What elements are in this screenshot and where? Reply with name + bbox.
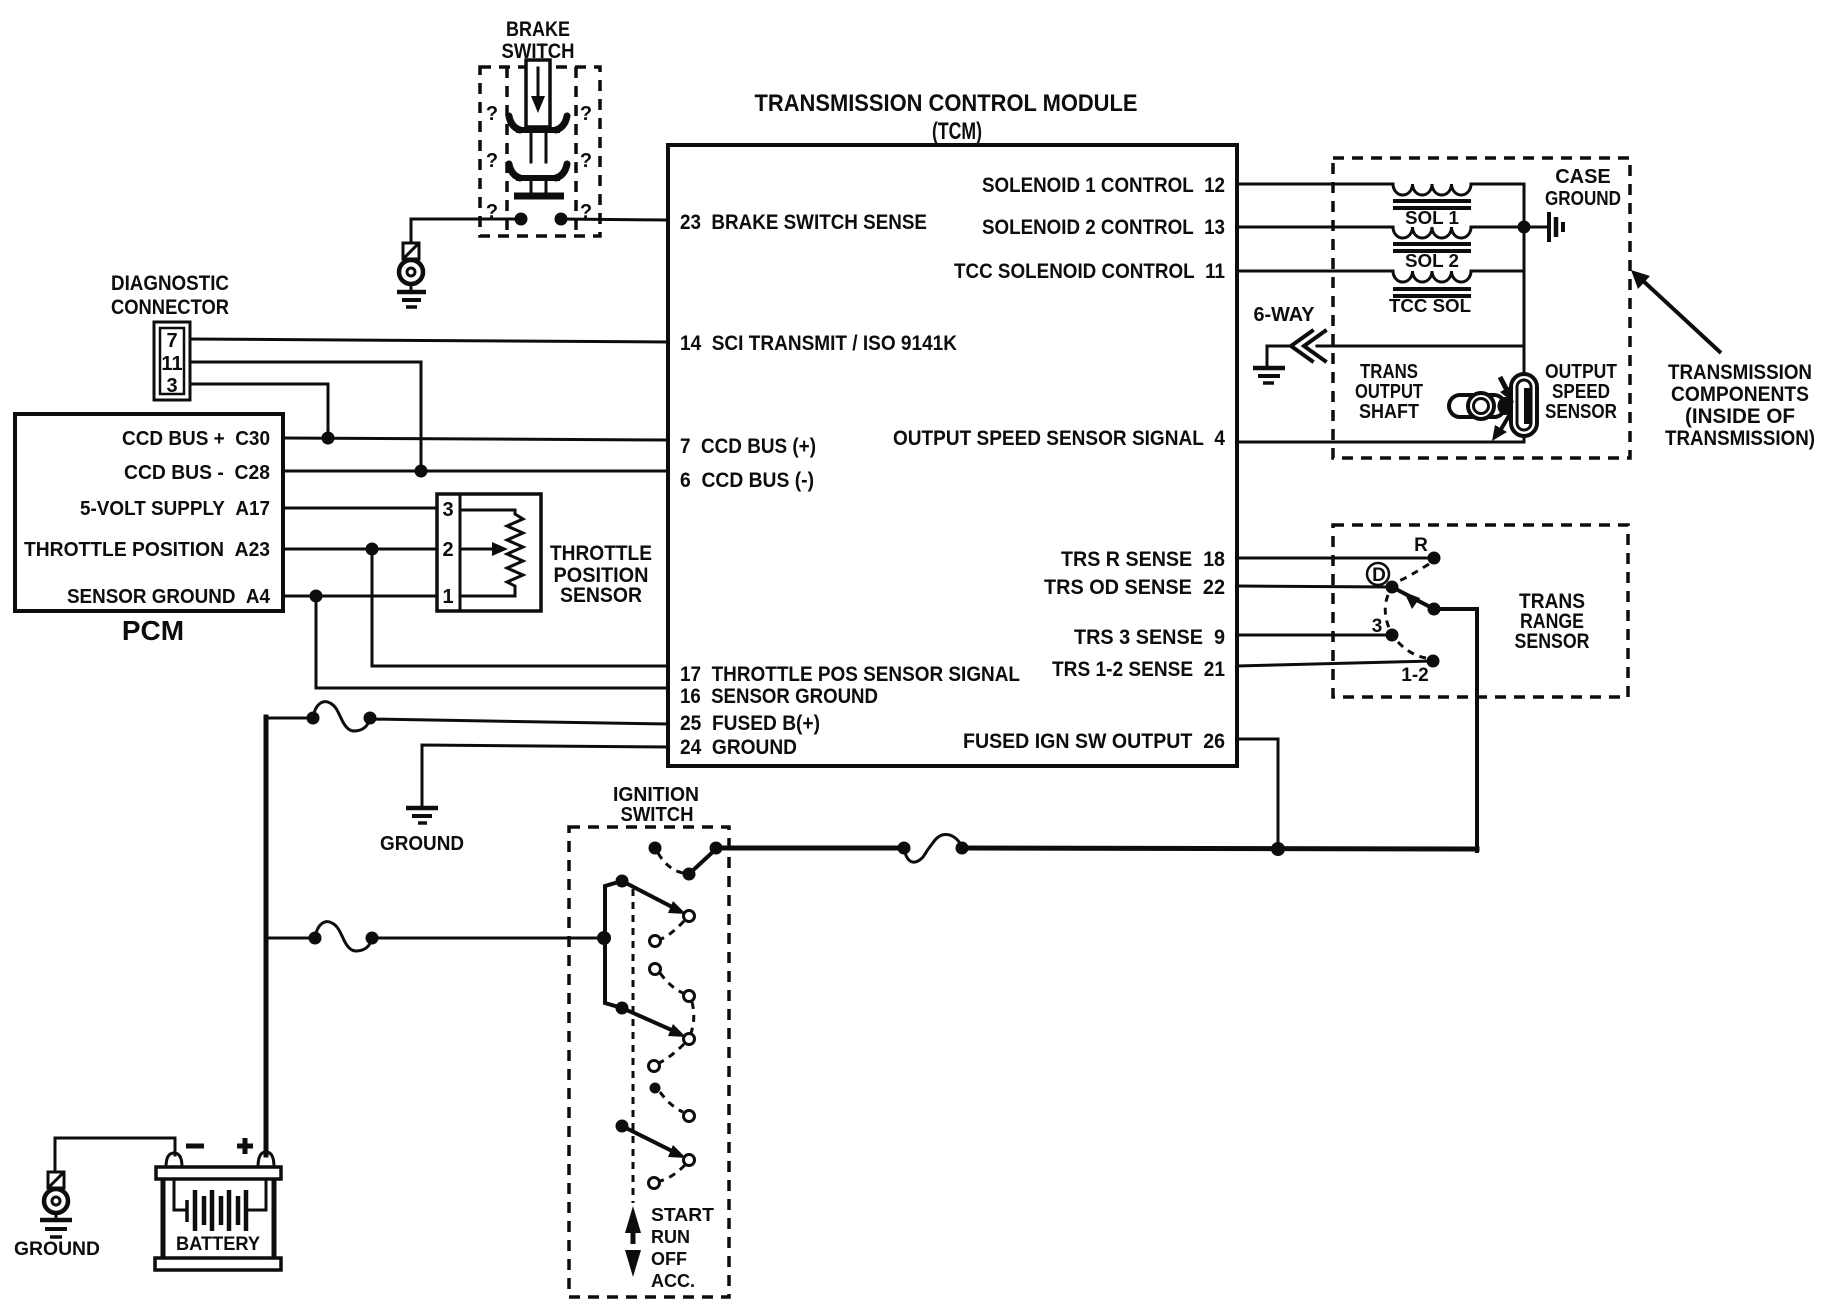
- solenoid SOL 1: [1393, 184, 1471, 228]
- svg-text:SENSOR: SENSOR: [1545, 401, 1617, 423]
- wire TCM pin 9 to TRS 3 contact: [1237, 634, 1392, 637]
- trans output shaft symbol: [1355, 361, 1513, 423]
- battery internal plates: [174, 1180, 187, 1210]
- svg-text:11: 11: [161, 353, 182, 375]
- svg-text:TCC SOLENOID CONTROL 11: TCC SOLENOID CONTROL 11: [954, 260, 1225, 283]
- node A23 junction: [366, 543, 379, 556]
- trans range sensor S2 dashed enclosure: [1333, 525, 1628, 697]
- wire riser to fuse F1: [266, 717, 313, 720]
- svg-text:16 SENSOR GROUND: 16 SENSOR GROUND: [680, 685, 878, 708]
- svg-text:SOLENOID 1 CONTROL 12: SOLENOID 1 CONTROL 12: [982, 174, 1225, 197]
- brake switch contact 2: [509, 164, 520, 178]
- wire diag pin3 to CCD bus +: [190, 384, 328, 438]
- ignition switch feed bar: [605, 881, 622, 1008]
- svg-text:CONNECTOR: CONNECTOR: [111, 296, 229, 319]
- ground G3 (TCM ground): [380, 808, 464, 855]
- svg-text:SWITCH: SWITCH: [621, 804, 694, 826]
- wire PCM A23 to TPS pin 2: [283, 548, 458, 551]
- svg-text:(TCM): (TCM): [932, 118, 982, 145]
- wire ignition switch to TRS feed (fused ign sw output run): [716, 846, 904, 851]
- solenoid SOL 2: [1393, 227, 1471, 271]
- svg-text:CCD BUS + C30: CCD BUS + C30: [122, 428, 270, 450]
- ignition switch stationary contacts: [684, 911, 695, 922]
- TRS dashed detent arcs: [1399, 564, 1429, 581]
- svg-text:17 THROTTLE POS SENSOR SIGNAL: 17 THROTTLE POS SENSOR SIGNAL: [680, 663, 1020, 686]
- brake switch dashed housing: [480, 67, 600, 236]
- fuse F1 (TCM B+ fuse): [307, 702, 377, 731]
- node 3 contact: [1386, 629, 1399, 642]
- ignition switch wiper arm 2: [622, 1008, 676, 1032]
- svg-text:START: START: [651, 1205, 714, 1225]
- svg-text:6-WAY: 6-WAY: [1254, 304, 1316, 326]
- wire PCM A4 to TPS pin 1: [283, 595, 458, 598]
- wire solenoid return bus: [1523, 227, 1526, 377]
- brake switch plunger: [526, 60, 550, 127]
- brake switch contact 1: [509, 116, 520, 130]
- svg-text:6 CCD BUS (-): 6 CCD BUS (-): [680, 469, 814, 492]
- svg-text:TRS OD SENSE 22: TRS OD SENSE 22: [1044, 576, 1225, 599]
- svg-text:THROTTLE POSITION A23: THROTTLE POSITION A23: [24, 539, 270, 561]
- output speed sensor B1: [1492, 361, 1617, 441]
- svg-text:3: 3: [166, 375, 177, 397]
- TCM U1 (Transmission Control Module): [668, 90, 1237, 766]
- svg-text:24 GROUND: 24 GROUND: [680, 736, 797, 759]
- ignition switch wiper arm 3: [616, 1120, 629, 1133]
- svg-text:25 FUSED B(+): 25 FUSED B(+): [680, 712, 820, 735]
- transmission components dashed enclosure: [1333, 158, 1630, 458]
- wire TCM pin 13 to SOL2: [1237, 226, 1393, 229]
- svg-text:23 BRAKE SWITCH SENSE: 23 BRAKE SWITCH SENSE: [680, 211, 927, 234]
- fuse F2 (ignition switch fuse): [309, 922, 379, 951]
- svg-text:SENSOR GROUND A4: SENSOR GROUND A4: [67, 586, 271, 608]
- wire brake switch to TCM pin 23: [561, 219, 668, 220]
- trans range sensor contacts and wiper: [1367, 535, 1590, 686]
- TRS wiper arm: [1392, 587, 1434, 609]
- TPS resistor element: [460, 510, 523, 596]
- node ignition feed junction: [1271, 842, 1285, 856]
- fuse F3 (ignition feed fuse): [898, 835, 969, 863]
- battery minus label: [186, 1144, 204, 1149]
- svg-text:TRANSMISSION CONTROL MODULE: TRANSMISSION CONTROL MODULE: [755, 90, 1138, 117]
- wire SOL2 to case ground bus: [1471, 226, 1524, 229]
- wire PCM C30 to TCM pin 7 (CCD bus +): [283, 438, 668, 440]
- wire fuse F1 to TCM pin 25: [370, 719, 668, 724]
- wire PCM A17 to TPS pin 3: [283, 507, 458, 510]
- svg-text:FUSED IGN SW OUTPUT 26: FUSED IGN SW OUTPUT 26: [963, 730, 1225, 753]
- solenoid TCC SOL: [1389, 271, 1471, 316]
- ground G4 (battery bolt ground): [14, 1172, 100, 1260]
- wire riser to fuse F2: [266, 937, 315, 940]
- svg-text:ACC.: ACC.: [651, 1271, 695, 1291]
- wire TCM pin 24 to ground: [422, 745, 668, 806]
- svg-text:3: 3: [1372, 616, 1383, 637]
- svg-text:2: 2: [442, 539, 453, 561]
- wire battery feed riser: [264, 717, 269, 1155]
- svg-text:RUN: RUN: [651, 1227, 690, 1247]
- battery negative terminal: [166, 1153, 182, 1167]
- svg-text:3: 3: [442, 499, 453, 521]
- svg-text:SPEED: SPEED: [1552, 381, 1610, 403]
- diagnostic connector J1: [111, 272, 229, 400]
- svg-text:CASE: CASE: [1555, 166, 1611, 188]
- node CCD- junction: [415, 465, 428, 478]
- svg-text:?: ?: [486, 150, 498, 172]
- node A4 junction: [310, 590, 323, 603]
- svg-text:BATTERY: BATTERY: [176, 1234, 260, 1255]
- case ground symbol: [1524, 166, 1621, 242]
- svg-text:COMPONENTS: COMPONENTS: [1671, 383, 1809, 406]
- brake switch terminals: [515, 213, 528, 226]
- ignition switch S3: [569, 784, 729, 1297]
- svg-text:TRS R SENSE 18: TRS R SENSE 18: [1061, 548, 1225, 571]
- ground G2 (6-way chassis ground): [1253, 368, 1285, 383]
- svg-text:(INSIDE OF: (INSIDE OF: [1685, 405, 1795, 428]
- svg-text:SOLENOID 2 CONTROL 13: SOLENOID 2 CONTROL 13: [982, 216, 1225, 239]
- wire brake switch to ground: [411, 219, 521, 243]
- ground G1 (brake switch bolt ground): [397, 243, 426, 307]
- svg-text:THROTTLE: THROTTLE: [550, 542, 652, 565]
- svg-text:TRANSMISSION): TRANSMISSION): [1665, 427, 1815, 450]
- wire SOL1 to case ground bus: [1471, 184, 1524, 227]
- svg-text:7 CCD BUS (+): 7 CCD BUS (+): [680, 435, 816, 458]
- node CCD+ junction: [322, 432, 335, 445]
- svg-text:TRS 3 SENSE 9: TRS 3 SENSE 9: [1074, 626, 1225, 649]
- TPS wiper arrow: [460, 548, 496, 551]
- wire TCM pin 21 to TRS 1-2 contact: [1237, 661, 1433, 666]
- svg-text:1-2: 1-2: [1401, 665, 1428, 686]
- svg-text:GROUND: GROUND: [380, 833, 464, 855]
- wire diag pin11 to CCD bus -: [190, 362, 421, 471]
- wire TCM pin 18 to TRS R contact: [1237, 557, 1434, 560]
- PCM module: [15, 414, 283, 646]
- ignition switch dashed detent arcs: [661, 921, 684, 939]
- throttle position sensor R1: [437, 494, 652, 611]
- wire TCM pin 4 to speed sensor (output speed sensor signal): [1237, 441, 1524, 444]
- wire PCM C28 to TCM pin 6 (CCD bus -): [283, 470, 668, 473]
- wire TCM pin 12 to SOL1: [1237, 183, 1393, 186]
- transmission components callout arrow: [1640, 278, 1721, 353]
- ignition switch travel axis: [632, 889, 635, 1203]
- svg-text:SENSOR: SENSOR: [1515, 630, 1590, 653]
- svg-text:OUTPUT SPEED SENSOR SIGNAL 4: OUTPUT SPEED SENSOR SIGNAL 4: [893, 427, 1225, 450]
- svg-text:TRANS: TRANS: [1360, 361, 1418, 383]
- svg-text:GROUND: GROUND: [14, 1239, 100, 1260]
- svg-text:R: R: [1414, 535, 1428, 556]
- svg-text:SOL 1: SOL 1: [1405, 208, 1459, 228]
- svg-text:CCD BUS - C28: CCD BUS - C28: [124, 462, 270, 484]
- wire TRS wiper to fused ign sw feed: [1434, 609, 1477, 851]
- svg-text:SOL 2: SOL 2: [1405, 251, 1459, 271]
- svg-text:?: ?: [580, 150, 592, 172]
- svg-text:IGNITION: IGNITION: [613, 784, 699, 806]
- svg-text:14 SCI TRANSMIT / ISO 9141K: 14 SCI TRANSMIT / ISO 9141K: [680, 332, 957, 355]
- svg-text:?: ?: [580, 103, 592, 125]
- wire TCC SOL to case ground bus: [1471, 270, 1524, 273]
- node case ground junction: [1518, 221, 1531, 234]
- svg-text:?: ?: [486, 103, 498, 125]
- svg-text:DIAGNOSTIC: DIAGNOSTIC: [111, 272, 229, 295]
- svg-text:7: 7: [166, 330, 177, 352]
- svg-text:5-VOLT SUPPLY A17: 5-VOLT SUPPLY A17: [80, 498, 270, 520]
- ignition switch top contact set: [649, 842, 662, 855]
- battery positive terminal: [258, 1152, 274, 1167]
- wire battery negative to ground: [55, 1138, 175, 1170]
- wire A23 junction to TCM pin 17: [372, 549, 668, 666]
- svg-text:PCM: PCM: [122, 615, 184, 646]
- svg-text:OFF: OFF: [651, 1249, 687, 1269]
- wire TCM pin 26 drop to ignition feed: [1237, 739, 1278, 849]
- 6-way connector C2: [1254, 304, 1525, 366]
- svg-text:1: 1: [442, 586, 453, 608]
- svg-text:TCC SOL: TCC SOL: [1389, 296, 1471, 316]
- ignition switch travel arrows: [625, 1206, 641, 1233]
- svg-text:GROUND: GROUND: [1545, 188, 1621, 210]
- battery BT1: [155, 1138, 281, 1270]
- wire diag pin7 to TCM pin 14: [190, 339, 668, 342]
- wire TCM pin 22 to TRS D contact: [1237, 586, 1392, 587]
- svg-text:OUTPUT: OUTPUT: [1355, 381, 1423, 403]
- svg-text:TRS 1-2 SENSE 21: TRS 1-2 SENSE 21: [1052, 658, 1225, 681]
- svg-text:SENSOR: SENSOR: [560, 584, 642, 607]
- transmission components label: [1665, 361, 1815, 450]
- node D contact: [1386, 581, 1399, 594]
- wire A4 junction to TCM pin 16: [316, 596, 668, 688]
- node R contact: [1428, 552, 1441, 565]
- brake switch S1: [480, 18, 600, 236]
- node 1-2 contact: [1427, 655, 1440, 668]
- wire fuse F2 to ignition switch: [372, 937, 604, 940]
- battery plus label: [237, 1144, 253, 1149]
- node ignition feed tap: [597, 931, 611, 945]
- wire TCM pin 11 to TCC solenoid: [1237, 270, 1393, 273]
- svg-text:OUTPUT: OUTPUT: [1545, 361, 1617, 383]
- svg-text:TRANSMISSION: TRANSMISSION: [1668, 361, 1812, 384]
- ignition switch wiper arm 1: [622, 881, 676, 909]
- svg-text:SHAFT: SHAFT: [1359, 401, 1419, 423]
- svg-text:BRAKE: BRAKE: [506, 18, 570, 41]
